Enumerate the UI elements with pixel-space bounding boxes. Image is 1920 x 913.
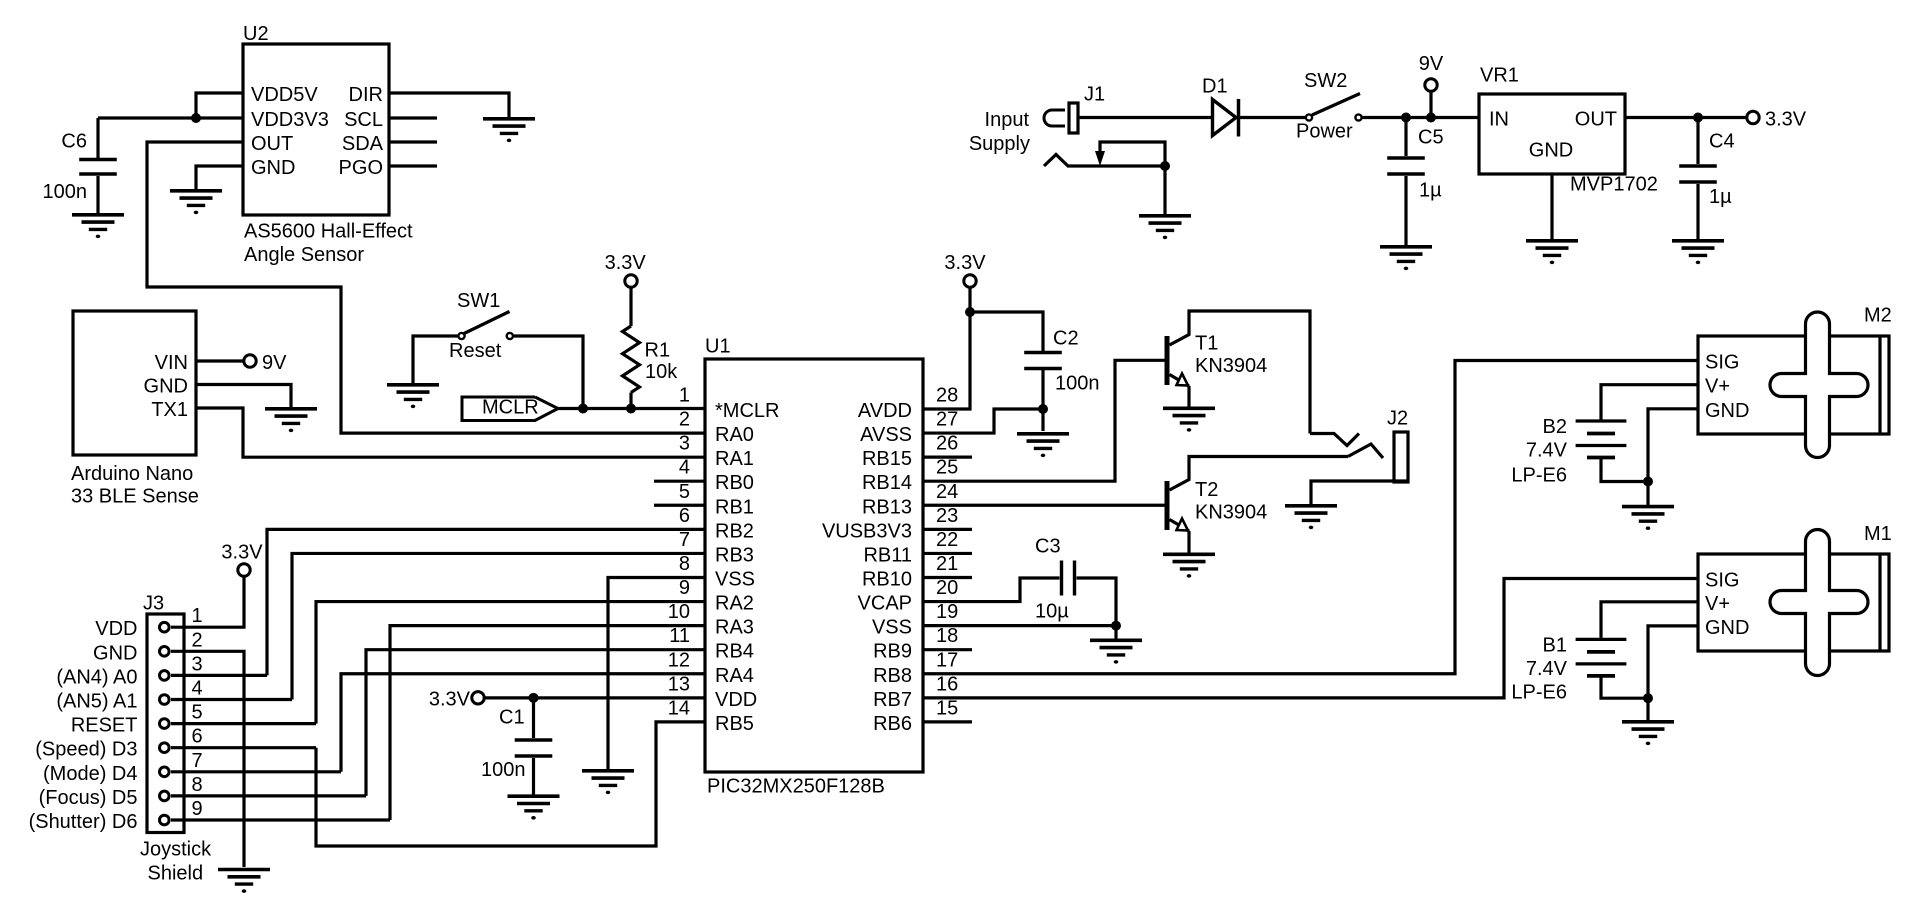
svg-text:Power: Power — [1296, 121, 1353, 143]
svg-text:SW2: SW2 — [1304, 70, 1347, 92]
node 3.3V terminal AVDD — [964, 275, 976, 287]
ground VR1 — [1526, 239, 1578, 243]
wire U1.RA2 to J3.5 — [316, 602, 705, 724]
svg-text:MCLR: MCLR — [482, 397, 539, 419]
svg-text:R1: R1 — [645, 340, 671, 362]
ground U2.GND — [170, 189, 222, 193]
pin J3.8 circle — [160, 791, 170, 801]
op-amp U1 box — [705, 359, 923, 772]
wire U1.VDD rail — [484, 696, 706, 699]
wire J1 to D1 — [1078, 116, 1213, 119]
wire U1.AVSS to C2 — [923, 409, 1041, 433]
diode D1 — [1213, 100, 1237, 136]
svg-text:10µ: 10µ — [1035, 600, 1069, 622]
svg-text:(Shutter) D6: (Shutter) D6 — [29, 811, 138, 833]
svg-text:2: 2 — [679, 409, 690, 431]
svg-text:GND: GND — [144, 376, 188, 398]
pin J3.4 circle — [160, 695, 170, 705]
svg-text:10: 10 — [668, 601, 690, 623]
connector J1 plug — [1044, 110, 1065, 126]
svg-text:18: 18 — [936, 625, 958, 647]
transistor T2 base bar — [1165, 481, 1170, 530]
svg-text:GND: GND — [251, 157, 295, 179]
wire U1.RB10 stub — [923, 576, 972, 579]
svg-text:Reset: Reset — [449, 340, 502, 362]
arrow J1 switch — [1095, 151, 1105, 166]
svg-text:GND: GND — [93, 642, 137, 664]
svg-text:IN: IN — [1489, 109, 1509, 131]
wire U1.RB11 stub — [923, 552, 972, 555]
svg-text:RA4: RA4 — [715, 665, 754, 687]
svg-text:1µ: 1µ — [1419, 180, 1442, 202]
svg-text:(Focus) D5: (Focus) D5 — [39, 787, 138, 809]
svg-text:RA3: RA3 — [715, 617, 754, 639]
motor M1 horn — [1770, 530, 1868, 676]
svg-text:KN3904: KN3904 — [1195, 502, 1267, 524]
svg-text:RB1: RB1 — [715, 496, 754, 518]
wire U1.AVDD to 3.3V — [923, 287, 970, 410]
node 9V junction — [1426, 113, 1436, 123]
svg-text:RA0: RA0 — [715, 424, 754, 446]
wire VR1.GND to ground — [1550, 174, 1553, 240]
capacitor C1 — [532, 698, 535, 738]
wire 9V stub — [1429, 91, 1432, 118]
wire U1.RB13 to T2 base — [923, 504, 1165, 507]
ground J1 — [1139, 214, 1191, 218]
ground U2.DIR — [483, 117, 535, 121]
switch SW1 lever — [464, 312, 510, 334]
node 9V terminal — [244, 355, 256, 367]
wire M1.V+ to B1 — [1601, 602, 1698, 638]
svg-text:U1: U1 — [705, 336, 731, 358]
svg-text:22: 22 — [936, 529, 958, 551]
ground U1.VSS8 — [582, 769, 634, 773]
svg-text:6: 6 — [192, 726, 203, 748]
svg-text:RB8: RB8 — [873, 665, 912, 687]
svg-text:1: 1 — [192, 605, 203, 627]
svg-text:C1: C1 — [499, 706, 525, 728]
ground J3 — [218, 868, 270, 872]
svg-text:17: 17 — [936, 649, 958, 671]
wire R1 top — [629, 287, 632, 327]
svg-text:*MCLR: *MCLR — [715, 400, 779, 422]
resistor R1 — [623, 326, 640, 393]
svg-text:100n: 100n — [43, 181, 88, 203]
capacitor C4 — [1696, 118, 1699, 165]
battery B1 — [1576, 638, 1627, 641]
wire T1 emitter — [1170, 375, 1190, 387]
svg-text:7: 7 — [679, 529, 690, 551]
ground T1 — [1163, 406, 1215, 410]
arrow T2 emitter — [1177, 519, 1189, 531]
svg-text:VSS: VSS — [715, 568, 755, 590]
svg-text:5: 5 — [679, 481, 690, 503]
capacitor C6 — [79, 158, 117, 161]
node 3.3V terminal out — [1747, 111, 1759, 123]
ground C3 — [1090, 638, 1142, 642]
ground J2 — [1285, 504, 1337, 508]
connector J3 box — [147, 614, 184, 833]
ground T2 — [1163, 552, 1215, 556]
ground C4 — [1672, 239, 1724, 243]
node VDD junction — [529, 693, 539, 703]
wire A1.GND — [196, 385, 291, 409]
svg-text:(AN5) A1: (AN5) A1 — [56, 691, 137, 713]
ground B2 — [1622, 505, 1674, 509]
wire B1 minus — [1601, 676, 1648, 698]
svg-text:D1: D1 — [1202, 76, 1228, 98]
wire J3.4 — [171, 698, 292, 701]
svg-text:LP-E6: LP-E6 — [1511, 465, 1567, 487]
ground SW1 — [387, 383, 439, 387]
svg-text:RB11: RB11 — [863, 544, 912, 566]
svg-text:RB0: RB0 — [715, 472, 754, 494]
svg-text:VDD3V3: VDD3V3 — [251, 109, 329, 131]
capacitor C5 — [1404, 118, 1407, 157]
svg-text:1: 1 — [679, 385, 690, 407]
node B1 junction — [1643, 693, 1653, 703]
ground C2 — [1017, 432, 1069, 436]
svg-text:B2: B2 — [1543, 416, 1567, 438]
wire U2.DIR to ground — [389, 93, 509, 118]
svg-text:100n: 100n — [1055, 373, 1100, 395]
node B2 junction — [1643, 477, 1653, 487]
svg-text:(AN4) A0: (AN4) A0 — [56, 666, 137, 688]
svg-text:VUSB3V3: VUSB3V3 — [822, 520, 912, 542]
svg-text:OUT: OUT — [251, 133, 293, 155]
node C5 junction — [1401, 113, 1411, 123]
svg-text:AS5600 Hall-Effect: AS5600 Hall-Effect — [244, 220, 413, 242]
svg-text:3: 3 — [192, 653, 203, 675]
wire J3.2 to ground — [171, 651, 244, 867]
svg-text:RB5: RB5 — [715, 713, 754, 735]
wire A1.TX1 to U1.RA1 — [196, 408, 705, 457]
wire B2 minus — [1601, 458, 1648, 482]
pin J3.9 circle — [160, 815, 170, 825]
wire J2 tip contact — [1310, 434, 1359, 446]
ground A1.GND — [265, 407, 317, 411]
wire U1.RB9 stub — [923, 648, 972, 651]
svg-text:SCL: SCL — [344, 109, 383, 131]
wire U1.RB6 stub — [923, 720, 972, 723]
svg-text:8: 8 — [192, 774, 203, 796]
pin J3.1 circle — [160, 622, 170, 632]
wire B2 ground stub — [1646, 482, 1649, 506]
wire U1.RB14 to T1 base — [923, 360, 1165, 481]
wire J3.9 — [171, 818, 390, 821]
svg-text:26: 26 — [936, 433, 958, 455]
wire T2 emitter — [1170, 520, 1190, 532]
svg-text:J2: J2 — [1387, 408, 1408, 430]
wire C6 top — [96, 118, 99, 158]
svg-text:SIG: SIG — [1705, 352, 1739, 374]
wire J1 switch contact — [1100, 142, 1165, 166]
arrow T1 emitter — [1177, 374, 1189, 386]
svg-text:OUT: OUT — [1575, 109, 1617, 131]
node MCLR junction 2 — [626, 404, 636, 414]
pin J3.7 circle — [160, 767, 170, 777]
svg-text:GND: GND — [1705, 617, 1749, 639]
svg-text:6: 6 — [679, 505, 690, 527]
svg-text:3: 3 — [679, 433, 690, 455]
svg-text:VIN: VIN — [155, 352, 188, 374]
svg-text:3.3V: 3.3V — [221, 542, 263, 564]
pin J3.3 circle — [160, 671, 170, 681]
pin J3.2 circle — [160, 647, 170, 657]
svg-text:C6: C6 — [61, 131, 87, 153]
svg-text:PIC32MX250F128B: PIC32MX250F128B — [707, 775, 885, 797]
svg-text:RB10: RB10 — [862, 568, 912, 590]
pin J3.5 circle — [160, 719, 170, 729]
svg-text:VDD: VDD — [715, 689, 757, 711]
svg-text:9V: 9V — [262, 352, 287, 374]
wire U1.RB5 to J3.6 — [316, 722, 705, 846]
svg-text:RB4: RB4 — [715, 641, 754, 663]
svg-text:SDA: SDA — [342, 133, 384, 155]
motor M2 horn — [1770, 312, 1868, 458]
node J1 junction — [1160, 161, 1170, 171]
wire SW2 to VR1 — [1362, 116, 1479, 119]
wire J3.1 to 3.3V — [171, 576, 244, 628]
svg-text:U2: U2 — [243, 23, 269, 45]
svg-text:19: 19 — [936, 601, 958, 623]
svg-text:VDD5V: VDD5V — [251, 84, 318, 106]
svg-text:MVP1702: MVP1702 — [1570, 174, 1658, 196]
svg-text:M1: M1 — [1864, 523, 1892, 545]
svg-text:21: 21 — [936, 553, 958, 575]
wire C3 ground stub — [1114, 626, 1117, 640]
node VDD3V3 junction — [191, 113, 201, 123]
svg-text:TX1: TX1 — [151, 399, 188, 421]
svg-text:SW1: SW1 — [457, 290, 500, 312]
wire U2.VDD5V to VDD3V3 net — [196, 93, 243, 118]
wire T1 collector — [1170, 311, 1311, 434]
ground B1 — [1622, 720, 1674, 724]
svg-text:3.3V: 3.3V — [605, 252, 647, 274]
wire B1 ground stub — [1646, 698, 1649, 721]
svg-text:3.3V: 3.3V — [429, 689, 471, 711]
svg-text:AVSS: AVSS — [860, 424, 912, 446]
svg-text:33 BLE Sense: 33 BLE Sense — [71, 486, 199, 508]
svg-text:Joystick: Joystick — [140, 839, 212, 861]
svg-text:GND: GND — [1705, 400, 1749, 422]
svg-text:13: 13 — [668, 673, 690, 695]
svg-text:T1: T1 — [1195, 333, 1218, 355]
svg-text:4: 4 — [679, 457, 690, 479]
svg-text:B1: B1 — [1543, 634, 1567, 656]
motor M2 box — [1698, 336, 1889, 434]
wire U2.OUT to U1.RA0 — [147, 142, 705, 433]
wire J2 ring contact — [1348, 444, 1383, 458]
switch SW2 lever — [1312, 94, 1360, 116]
wire M1.GND — [1648, 626, 1698, 698]
svg-text:(Mode) D4: (Mode) D4 — [43, 763, 137, 785]
svg-text:1µ: 1µ — [1709, 186, 1732, 208]
pin J3.6 circle — [160, 743, 170, 753]
wire U2.GND — [196, 166, 243, 190]
regulator VR1 box — [1479, 94, 1625, 174]
wire SW1 right to MCLR — [514, 336, 584, 409]
svg-text:14: 14 — [668, 697, 690, 719]
svg-text:M2: M2 — [1864, 305, 1892, 327]
svg-text:100n: 100n — [481, 759, 526, 781]
ground C1 — [508, 794, 560, 798]
svg-text:J1: J1 — [1084, 84, 1105, 106]
svg-text:SIG: SIG — [1705, 570, 1739, 592]
wire D1 to SW2 — [1240, 116, 1306, 119]
wire U1.RB8 to M2.SIG — [923, 361, 1698, 674]
wire U1.VCAP to C3 — [923, 578, 1060, 602]
wire U1.RA4 to J3.7 — [341, 674, 705, 772]
flag MCLR — [462, 397, 558, 421]
wire U2.SCL stub — [389, 116, 437, 119]
wire U1.RB0 stub — [654, 480, 705, 483]
svg-text:8: 8 — [679, 553, 690, 575]
module A1 Arduino box — [73, 311, 196, 455]
svg-text:24: 24 — [936, 481, 958, 503]
wire J3.8 — [171, 794, 366, 797]
svg-text:7.4V: 7.4V — [1526, 658, 1568, 680]
svg-text:3.3V: 3.3V — [944, 252, 986, 274]
wire U1.RA3 to J3.9 — [390, 626, 705, 820]
node 9V terminal top — [1425, 79, 1437, 91]
wire U1.VSS19 — [923, 624, 1116, 627]
svg-text:20: 20 — [936, 577, 958, 599]
svg-text:V+: V+ — [1705, 376, 1730, 398]
wire J3.5 — [171, 722, 316, 725]
node C4 junction — [1693, 113, 1703, 123]
svg-text:7.4V: 7.4V — [1526, 439, 1568, 461]
wire U1.VSS8 to ground — [608, 577, 705, 770]
svg-text:10k: 10k — [645, 361, 678, 383]
svg-text:Arduino Nano: Arduino Nano — [71, 463, 193, 485]
wire C3 to VSS — [1077, 578, 1117, 626]
svg-text:AVDD: AVDD — [858, 400, 912, 422]
svg-text:C4: C4 — [1709, 131, 1735, 153]
svg-text:RB9: RB9 — [873, 641, 912, 663]
capacitor C2 — [1024, 351, 1062, 354]
wire U1.RB3 to J3.4 — [292, 553, 705, 699]
svg-text:12: 12 — [668, 649, 690, 671]
svg-text:RB14: RB14 — [862, 472, 912, 494]
svg-text:GND: GND — [1529, 140, 1573, 162]
wire J3.6 — [171, 746, 316, 749]
svg-text:V+: V+ — [1705, 593, 1730, 615]
svg-text:RESET: RESET — [71, 715, 138, 737]
svg-text:RB13: RB13 — [862, 496, 912, 518]
wire U1.RB4 to J3.8 — [366, 650, 705, 796]
wire SW1 left to ground — [413, 336, 458, 384]
svg-text:RB2: RB2 — [715, 520, 754, 542]
svg-text:C3: C3 — [1035, 535, 1061, 557]
node 3.3V terminal J3 — [238, 564, 250, 576]
wire U1.RB1 stub — [654, 504, 705, 507]
wire M2.V+ to B2 — [1601, 385, 1698, 420]
wire J2 sleeve to ground — [1311, 481, 1408, 505]
connector J2 plug — [1394, 432, 1408, 482]
svg-text:5: 5 — [192, 702, 203, 724]
svg-text:9V: 9V — [1419, 53, 1444, 75]
svg-text:Shield: Shield — [148, 862, 204, 884]
svg-text:Input: Input — [985, 109, 1030, 131]
svg-text:J3: J3 — [143, 593, 164, 615]
wire U2.PGO stub — [389, 164, 437, 167]
wire M2.GND — [1648, 409, 1698, 482]
motor M1 box — [1698, 554, 1889, 651]
svg-text:LP-E6: LP-E6 — [1511, 682, 1567, 704]
svg-text:VCAP: VCAP — [858, 593, 912, 615]
wire J1 sleeve — [1044, 155, 1165, 167]
wire U1.VUSB3V3 stub — [923, 528, 972, 531]
svg-text:16: 16 — [936, 673, 958, 695]
svg-text:VDD: VDD — [95, 618, 137, 640]
svg-text:(Speed) D3: (Speed) D3 — [35, 739, 137, 761]
wire J1 to ground — [1163, 166, 1166, 215]
svg-text:Angle Sensor: Angle Sensor — [244, 244, 364, 266]
wire R1 bottom — [629, 393, 632, 409]
svg-text:15: 15 — [936, 697, 958, 719]
svg-text:11: 11 — [669, 625, 690, 647]
svg-text:3.3V: 3.3V — [1765, 109, 1807, 131]
wire U2.SDA stub — [389, 140, 437, 143]
svg-text:RB3: RB3 — [715, 544, 754, 566]
wire AVDD to C2 — [970, 312, 1043, 351]
wire U2.VDD3V3 to C6 — [98, 116, 243, 119]
svg-text:RB7: RB7 — [873, 689, 912, 711]
node C3 junction — [1111, 621, 1121, 631]
wire J3.7 — [171, 770, 341, 773]
svg-text:28: 28 — [936, 385, 958, 407]
svg-text:KN3904: KN3904 — [1195, 355, 1267, 377]
svg-text:23: 23 — [936, 505, 958, 527]
ground C6 — [72, 213, 124, 217]
wire A1.VIN to 9V — [196, 359, 245, 362]
switch SW2 contacts — [1306, 114, 1312, 120]
svg-text:Supply: Supply — [969, 133, 1030, 155]
wire J3.3 — [171, 674, 267, 677]
node 3.3V terminal VDD — [472, 692, 484, 704]
node 3.3V terminal R1 — [625, 275, 637, 287]
svg-text:27: 27 — [936, 409, 958, 431]
svg-text:C2: C2 — [1053, 328, 1079, 350]
svg-text:RA2: RA2 — [715, 593, 754, 615]
switch SW1 contacts — [458, 333, 464, 339]
svg-text:4: 4 — [192, 678, 203, 700]
svg-text:T2: T2 — [1195, 479, 1218, 501]
node AVDD junction — [965, 307, 975, 317]
ground C5 — [1380, 245, 1432, 249]
svg-text:9: 9 — [679, 577, 690, 599]
svg-text:RB6: RB6 — [873, 713, 912, 735]
node MCLR junction 1 — [578, 404, 588, 414]
battery B2 — [1576, 419, 1627, 422]
svg-text:VSS: VSS — [872, 617, 912, 639]
svg-text:VR1: VR1 — [1480, 65, 1519, 87]
wire U1.RB7 to M1.SIG — [923, 579, 1698, 698]
wire U1.RB2 to J3.3 — [267, 529, 705, 675]
svg-text:RB15: RB15 — [862, 448, 912, 470]
wire T1 emitter ground stub — [1187, 386, 1190, 408]
svg-text:RA1: RA1 — [715, 448, 754, 470]
wire VR1.OUT to 3.3V — [1625, 116, 1748, 119]
wire U1.RB15 stub — [923, 456, 972, 459]
svg-text:PGO: PGO — [339, 157, 383, 179]
svg-text:DIR: DIR — [349, 84, 383, 106]
wire MCLR rail — [558, 407, 705, 410]
svg-text:7: 7 — [192, 750, 203, 772]
op-amp U2 box — [243, 44, 389, 215]
wire T2 collector — [1170, 457, 1349, 491]
